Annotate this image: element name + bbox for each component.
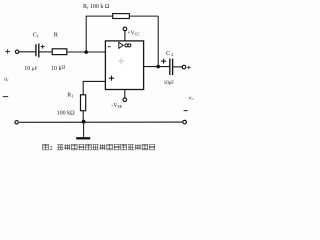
svg-text:Rf 100 k Ω: Rf 100 k Ω xyxy=(83,4,110,10)
+Vcc terminal xyxy=(123,27,127,31)
svg-text:10 μF: 10 μF xyxy=(24,66,37,72)
wire: op-amp output xyxy=(144,66,170,68)
-VEE terminal xyxy=(123,98,127,102)
wire: +Vcc stub xyxy=(124,31,126,41)
output terminal xyxy=(182,65,186,69)
wire: feedback right vertical xyxy=(157,16,159,67)
node G junction (ground) xyxy=(82,120,86,124)
svg-text:R1: R1 xyxy=(67,93,73,99)
node B junction (output) xyxy=(156,65,160,69)
label + (input polarity) xyxy=(5,49,10,53)
wire: R to op-amp inverting input xyxy=(67,51,106,53)
caption 图2 双电源反相输入式交流放大电路 xyxy=(43,144,155,152)
label + (C2 polarity) xyxy=(161,59,166,64)
resistor R1 xyxy=(81,95,86,111)
wire: non-inverting input vertical down to R1 xyxy=(82,81,84,95)
left bottom terminal xyxy=(15,121,18,124)
wire: C2 to output terminal xyxy=(173,66,182,68)
symbol ∞ (infinite gain) xyxy=(125,44,128,47)
label − (output polarity) xyxy=(184,110,188,112)
op-amp U1 xyxy=(105,41,143,90)
wire: input terminal to C1 xyxy=(19,51,35,53)
label + (C1 polarity) xyxy=(41,45,45,49)
faint + watermark in box xyxy=(118,58,124,64)
capacitor C1 xyxy=(36,44,39,58)
svg-text:2: 2 xyxy=(50,146,53,152)
label − (input polarity) xyxy=(3,96,8,98)
wire: feedback top right xyxy=(129,15,158,17)
resistor Rf xyxy=(113,14,130,19)
pin marker − (inverting input) xyxy=(108,46,111,48)
capacitor C2 xyxy=(170,59,173,76)
wire: feedback left vertical xyxy=(85,16,87,52)
pin marker + (non-inverting input) xyxy=(109,76,114,81)
resistor R xyxy=(52,49,67,55)
right bottom terminal xyxy=(183,120,187,124)
wire: R1 to ground rail xyxy=(82,111,84,123)
svg-text:100 kΩ: 100 kΩ xyxy=(57,111,76,117)
svg-text:uo: uo xyxy=(189,95,194,101)
ground xyxy=(76,122,90,138)
bottom rail wire xyxy=(19,121,182,123)
wire: C1 to R xyxy=(40,51,53,53)
wire: feedback top left xyxy=(86,15,113,17)
label + (output polarity) xyxy=(187,66,190,69)
wire: -VEE stub xyxy=(124,90,126,98)
input terminal (top left) xyxy=(15,50,18,53)
svg-text:C 2: C 2 xyxy=(166,50,173,57)
svg-text:10μF: 10μF xyxy=(164,80,175,86)
svg-text:C1: C1 xyxy=(33,31,39,38)
node A junction (inverting input) xyxy=(84,50,88,54)
symbol triangle xyxy=(119,42,123,48)
wire: non-inverting input horizontal xyxy=(83,80,105,82)
